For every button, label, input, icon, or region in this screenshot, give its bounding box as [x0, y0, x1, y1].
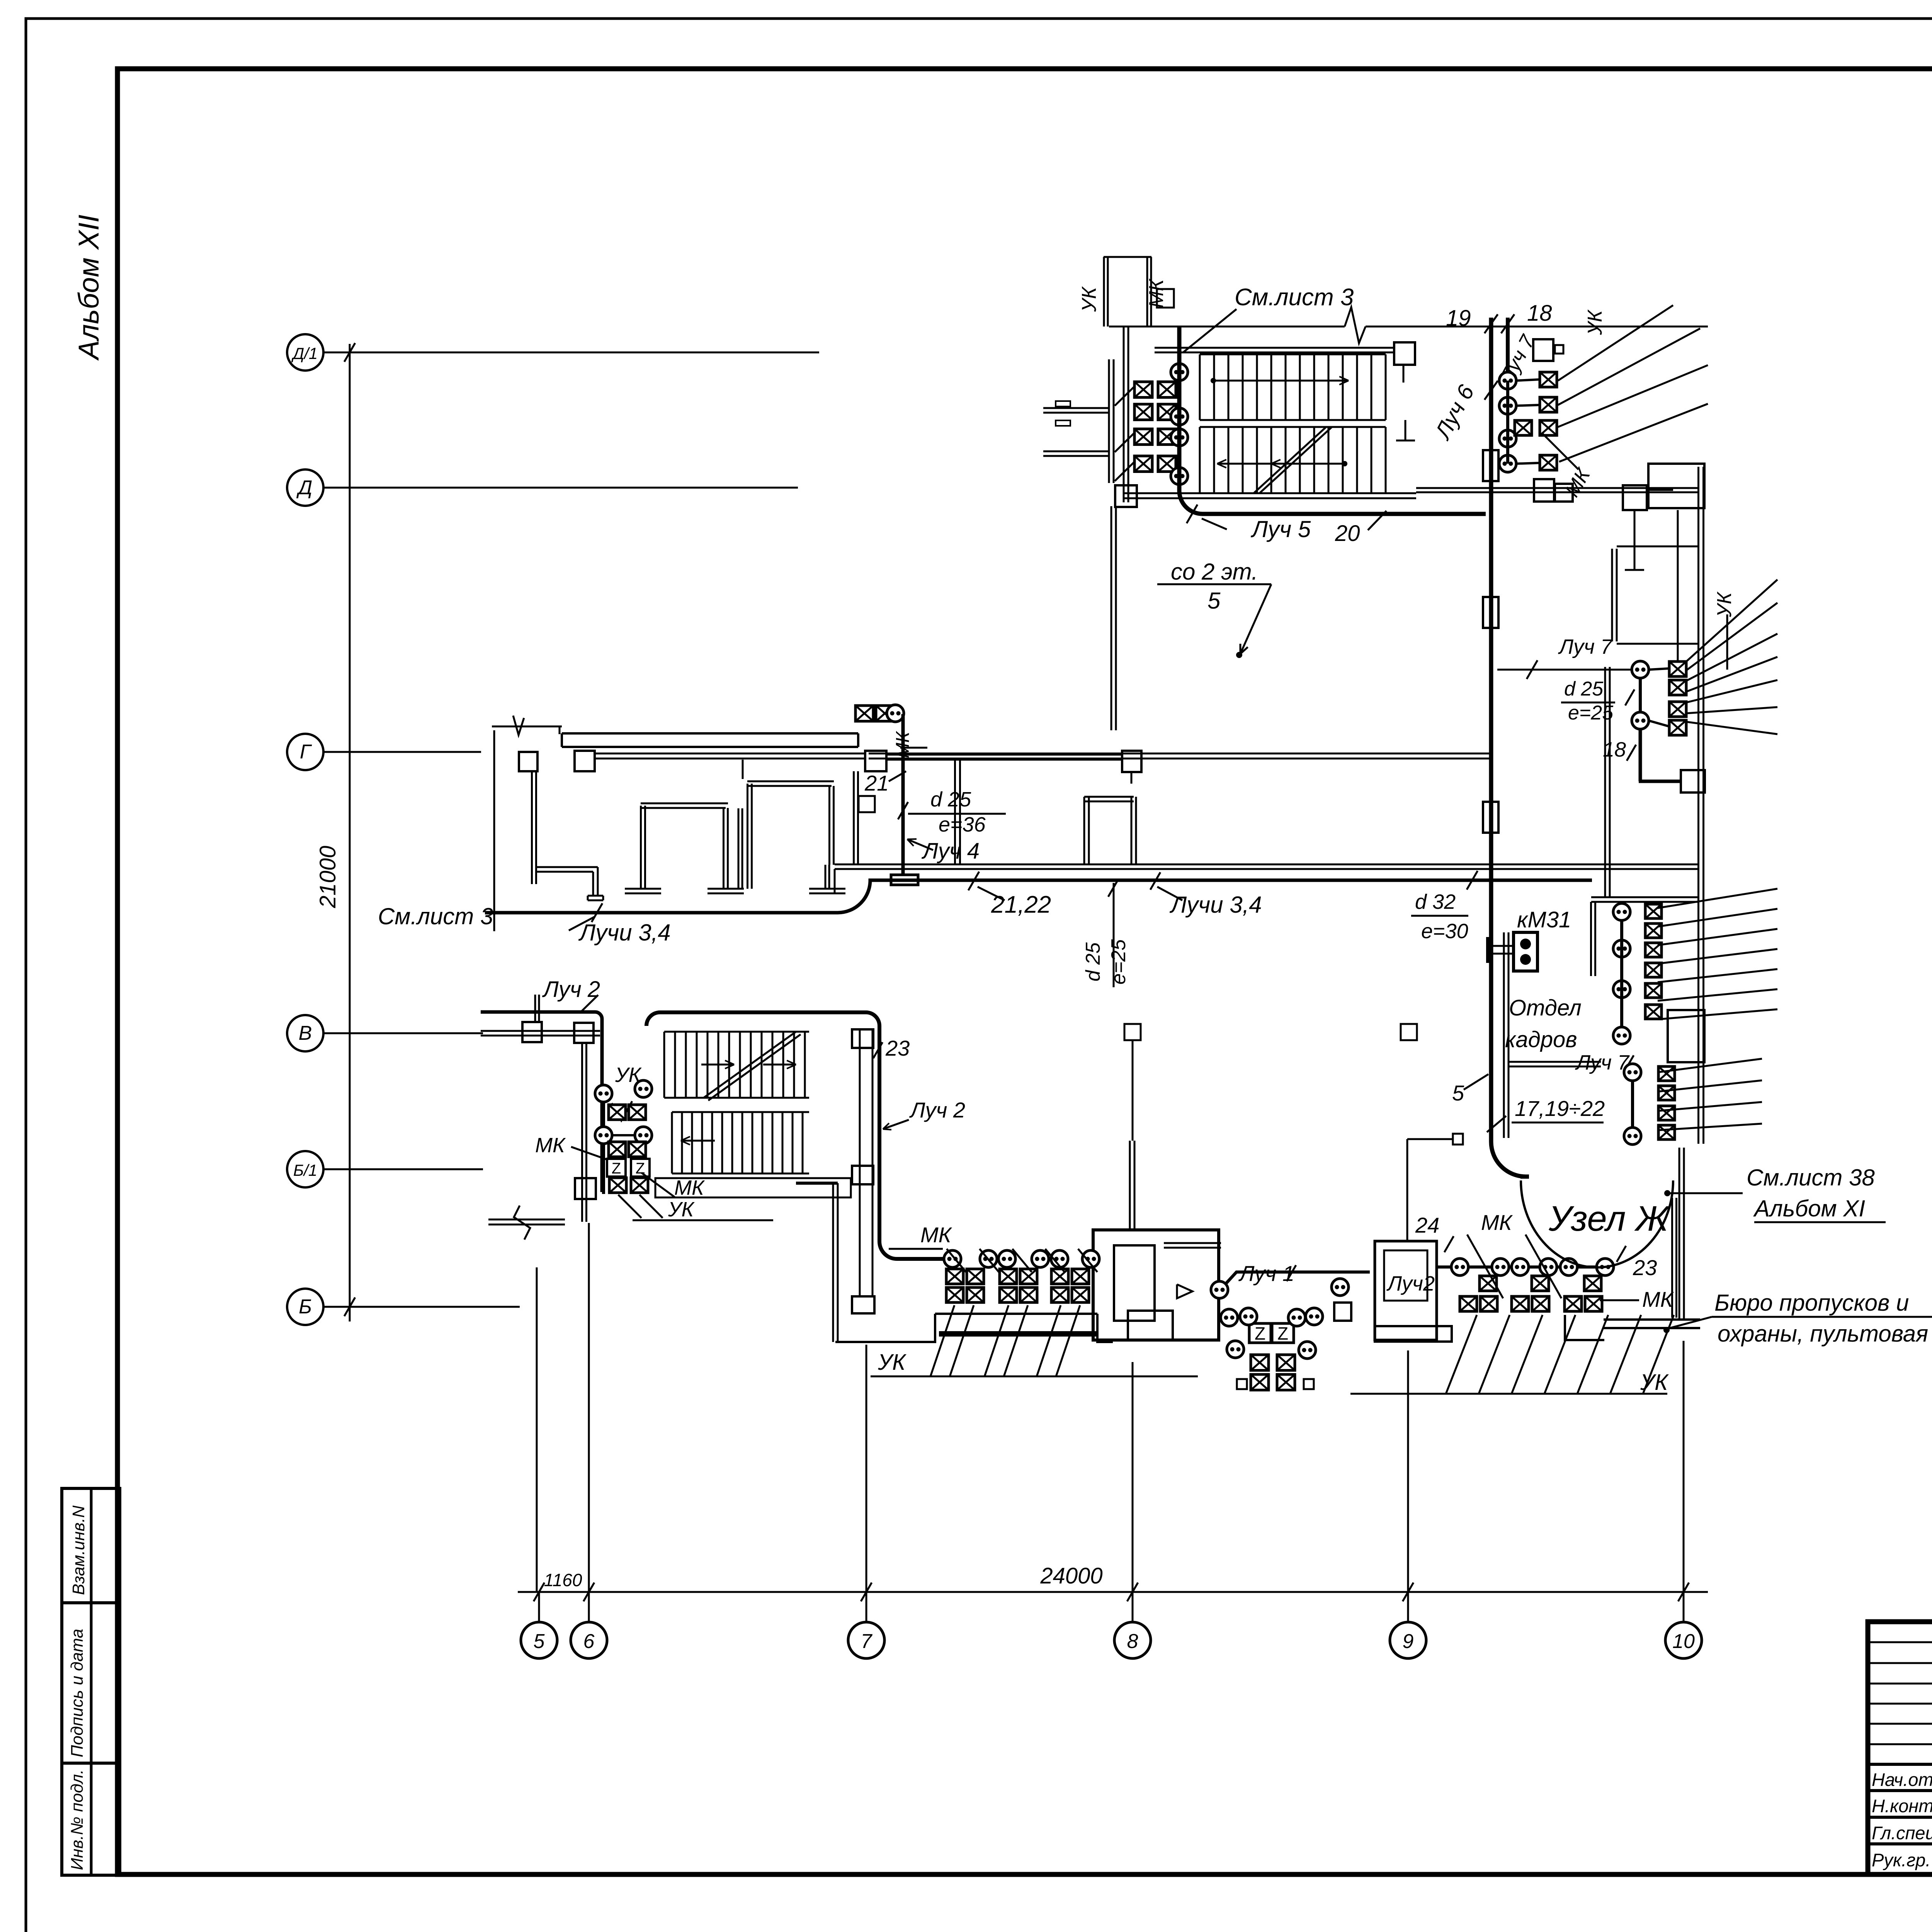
cluster trunk — [602, 1102, 605, 1127]
niche — [1611, 549, 1613, 641]
UK fan bottom right — [1446, 1315, 1477, 1394]
svg-text:УК: УК — [1640, 1370, 1669, 1395]
stair1 top rails — [1155, 347, 1394, 349]
svg-text:УК: УК — [668, 1198, 695, 1221]
pilaster boxes — [519, 752, 537, 771]
svg-text:е=30: е=30 — [1421, 920, 1468, 943]
svg-text:23: 23 — [1633, 1255, 1657, 1280]
bottom wall to beam — [835, 1314, 935, 1342]
stair1 treads upper flight — [1199, 354, 1201, 420]
left axis lines — [323, 352, 819, 354]
svg-text:18: 18 — [1603, 738, 1626, 761]
svg-text:УК: УК — [1584, 309, 1606, 335]
outer left wall — [493, 730, 495, 931]
svg-text:УК: УК — [1078, 286, 1100, 312]
svg-text:е=25: е=25 — [1107, 939, 1130, 985]
svg-text:Луч 5: Луч 5 — [1250, 516, 1311, 542]
trunk corner into uzel — [1491, 1142, 1529, 1177]
luch 1 wire — [1219, 1272, 1370, 1291]
triangle flag — [1177, 1284, 1192, 1298]
left corridor walls — [1108, 359, 1110, 483]
svg-text:См.лист 38: См.лист 38 — [1747, 1165, 1875, 1190]
svg-text:МК: МК — [1145, 278, 1168, 308]
left bottom L-piece — [536, 866, 598, 868]
svg-text:Гл.спец.: Гл.спец. — [1872, 1823, 1932, 1843]
svg-text:Г: Г — [300, 741, 312, 763]
svg-text:Альбом ХI: Альбом ХI — [1753, 1196, 1865, 1221]
title block — [1868, 1622, 1932, 1874]
svg-text:5: 5 — [1207, 588, 1221, 614]
svg-text:Луч 4: Луч 4 — [921, 838, 980, 864]
junction boxes right of stair — [1534, 479, 1554, 502]
svg-text:Луч 2: Луч 2 — [542, 977, 600, 1002]
svg-text:УК: УК — [1713, 591, 1736, 617]
svg-text:Луч 2: Луч 2 — [909, 1098, 965, 1122]
second room (stall) — [738, 808, 740, 889]
left column: Взам.инв.N / Подпись и дата / Инв.№ подл. — [62, 1488, 120, 1875]
bottom axis vertical lines — [536, 1267, 538, 1592]
svg-text:Z: Z — [612, 1160, 621, 1177]
bottom axis circles — [521, 1622, 557, 1658]
middle rooms between G and V — [954, 759, 956, 864]
fan leaders to UK — [1558, 305, 1673, 381]
bottom right wall — [1565, 1315, 1604, 1340]
chain on trunk 18 — [1499, 372, 1516, 389]
svg-text:Б: Б — [299, 1296, 312, 1318]
Luch 5 label — [1187, 505, 1197, 523]
vestibule corridor link walls — [1129, 1141, 1131, 1230]
luch 4 drop wire — [901, 714, 905, 875]
24000 dimension line — [518, 1591, 1708, 1593]
mid right chain — [1613, 903, 1630, 920]
svg-text:20: 20 — [1335, 521, 1360, 546]
svg-text:6: 6 — [583, 1630, 595, 1653]
lower right chain — [1624, 1064, 1641, 1081]
svg-text:УК: УК — [615, 1063, 642, 1087]
svg-text:Рук.гр.: Рук.гр. — [1872, 1850, 1930, 1870]
svg-text:со 2 эт.: со 2 эт. — [1171, 559, 1258, 585]
coupling on trunk — [1483, 450, 1498, 481]
bottom beam thick — [939, 1331, 1097, 1337]
svg-text:Б/1: Б/1 — [293, 1161, 317, 1179]
shafts above top wall — [1103, 257, 1105, 327]
svg-text:кМ31: кМ31 — [1517, 907, 1571, 932]
bottom rail to right with box — [1416, 487, 1623, 489]
svg-text:18: 18 — [1527, 301, 1552, 326]
axis V wall with boxes — [481, 1030, 600, 1032]
stair1 diagonal cut — [1254, 427, 1326, 493]
svg-text:МК: МК — [535, 1134, 566, 1157]
MK long box — [655, 1178, 851, 1197]
svg-text:7: 7 — [861, 1630, 873, 1653]
fan UK right — [1686, 580, 1777, 662]
svg-text:См.лист 3: См.лист 3 — [378, 903, 493, 929]
stair1 landing T rail — [1405, 420, 1406, 440]
columns in hall — [1124, 1024, 1141, 1040]
svg-text:Подпись и дата: Подпись и дата — [68, 1629, 87, 1757]
svg-text:Отдел: Отдел — [1509, 995, 1582, 1020]
axis G corridor top lines — [869, 753, 1492, 755]
column box on axis G at x2904 — [1131, 774, 1133, 784]
thin line with break at top — [492, 726, 562, 728]
svg-text:21,22: 21,22 — [991, 891, 1051, 918]
left room wall — [531, 771, 533, 884]
wire drops in hall — [1132, 1040, 1134, 1141]
cluster by stair2 — [595, 1085, 612, 1102]
left wall down from axis V — [581, 1043, 583, 1222]
svg-text:17,19÷22: 17,19÷22 — [1515, 1096, 1605, 1121]
big hall left wall — [796, 1182, 838, 1185]
svg-text:Луч 7: Луч 7 — [1558, 635, 1613, 658]
svg-text:Луч 7: Луч 7 — [1575, 1051, 1630, 1074]
svg-text:охраны, пультовая: охраны, пультовая — [1718, 1321, 1928, 1347]
top right box — [1533, 339, 1553, 361]
svg-text:МК: МК — [893, 731, 913, 758]
svg-text:е=36: е=36 — [939, 813, 986, 836]
svg-text:10: 10 — [1672, 1630, 1695, 1653]
svg-text:5: 5 — [1452, 1081, 1464, 1105]
Luch 7 upper chain — [1497, 669, 1640, 671]
stair2 diagonal — [704, 1032, 796, 1098]
small squares under ZZ — [1237, 1379, 1247, 1389]
svg-text:МК: МК — [920, 1223, 952, 1247]
svg-text:23: 23 — [885, 1036, 910, 1060]
svg-text:е=25: е=25 — [1568, 702, 1614, 724]
svg-text:кадров: кадров — [1505, 1027, 1577, 1052]
svg-text:19: 19 — [1446, 306, 1471, 331]
stair1 down arrow — [1342, 461, 1347, 466]
MK trunk wire (Luch 5) — [1179, 327, 1486, 514]
diagonal leaders to wall — [1115, 386, 1134, 406]
svg-text:Н.контр.: Н.контр. — [1872, 1796, 1932, 1816]
right chain wire — [1437, 1265, 1605, 1269]
svg-text:21: 21 — [864, 771, 889, 795]
svg-text:8: 8 — [1127, 1630, 1138, 1653]
top wall (thick double) — [562, 732, 858, 735]
svg-text:Инв.№ подл.: Инв.№ подл. — [68, 1769, 87, 1870]
svg-text:В: В — [299, 1022, 312, 1044]
stair2 treads lower — [672, 1111, 809, 1113]
svg-text:5: 5 — [534, 1630, 545, 1653]
svg-text:9: 9 — [1403, 1630, 1414, 1653]
fan for mid chain — [1658, 889, 1777, 908]
svg-text:Бюро пропусков и: Бюро пропусков и — [1714, 1290, 1909, 1316]
svg-text:Z: Z — [1255, 1323, 1265, 1344]
stair1 treads lower flight — [1199, 427, 1201, 493]
svg-text:См.лист 3: См.лист 3 — [1235, 284, 1354, 311]
bottom chain left group — [944, 1250, 961, 1267]
svg-text:Взам.инв.N: Взам.инв.N — [69, 1505, 88, 1595]
corridor top line with break — [1109, 326, 1345, 328]
svg-text:24000: 24000 — [1040, 1563, 1102, 1588]
svg-text:Д: Д — [296, 476, 313, 499]
corridor cluster above wall — [855, 706, 873, 721]
partition at y2330 — [1591, 896, 1699, 898]
wire pair along axis G — [595, 753, 865, 755]
svg-text:УК: УК — [878, 1350, 906, 1375]
svg-text:Узел Ж: Узел Ж — [1548, 1199, 1670, 1238]
middle room (stall) — [640, 806, 642, 889]
bottom-left wall with break — [488, 1219, 565, 1221]
svg-text:d 25: d 25 — [1564, 678, 1604, 700]
svg-text:d 25: d 25 — [930, 788, 971, 811]
svg-text:МК: МК — [1481, 1210, 1513, 1235]
svg-text:1160: 1160 — [544, 1570, 582, 1590]
svg-text:Д/1: Д/1 — [291, 344, 318, 362]
21000 dimension — [349, 344, 351, 1321]
svg-text:Альбом ХII: Альбом ХII — [73, 214, 105, 361]
pilaster 2 — [1668, 1010, 1704, 1062]
stair2 treads upper — [664, 1031, 809, 1033]
svg-text:21000: 21000 — [315, 846, 340, 908]
stair1 bottom wall — [1124, 492, 1416, 494]
svg-text:Лучи 3,4: Лучи 3,4 — [578, 920, 671, 946]
wire 21,22 — [485, 880, 1592, 913]
left axis circles — [287, 334, 323, 371]
stair1 up arrow — [1211, 378, 1216, 383]
stair2 enclosure wire (Luch 2) — [646, 1012, 952, 1259]
svg-text:МК: МК — [674, 1176, 705, 1199]
svg-text:Лучи 3,4: Лучи 3,4 — [1169, 892, 1262, 918]
svg-text:24: 24 — [1415, 1213, 1439, 1237]
ZZ cluster — [1249, 1323, 1271, 1343]
stair2 right wall pair with boxes — [859, 1029, 861, 1296]
vestibule room box — [1093, 1230, 1219, 1340]
corridor bottom wall — [835, 864, 1699, 866]
tambour boxes right — [1375, 1241, 1437, 1340]
svg-text:Z: Z — [1277, 1323, 1288, 1344]
otdel kadrov walls — [1503, 932, 1505, 1138]
svg-text:d 32: d 32 — [1415, 890, 1456, 913]
right wall of block — [853, 771, 855, 865]
svg-text:МК: МК — [1642, 1287, 1674, 1311]
svg-text:d 25: d 25 — [1082, 942, 1104, 981]
svg-text:Нач.отд.: Нач.отд. — [1872, 1769, 1932, 1790]
stair1 left wall — [1123, 327, 1125, 502]
